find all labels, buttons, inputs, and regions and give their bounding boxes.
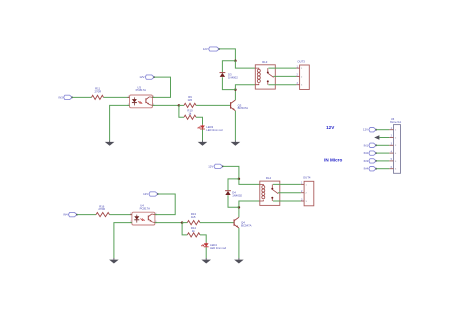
- wire U4 pin2 to ground: [114, 223, 132, 259]
- relay RL3: [255, 65, 275, 89]
- resistor R16: [96, 213, 110, 217]
- ground under Q4: [234, 258, 244, 263]
- wire RL3 common to OUT3 pin2: [274, 75, 297, 77]
- wire RL4 common to OUT4 pin2: [278, 192, 301, 194]
- connector U6 body: [394, 125, 401, 174]
- ground arrow terminal pin2: [374, 135, 379, 139]
- wire rail to D3 cathode: [222, 61, 235, 72]
- wire RL4 contact NO to OUT4 pin1: [273, 183, 301, 185]
- svg-text:IN3: IN3: [364, 159, 369, 163]
- junction node base divider A: [178, 104, 181, 107]
- U6 pin 2 stub: [389, 137, 393, 139]
- svg-text:1N4002: 1N4002: [228, 75, 238, 79]
- svg-text:1k5: 1k5: [188, 98, 193, 102]
- wire IN1 port to U6 pin 3: [376, 144, 389, 146]
- wire 12V to U4 pin4: [155, 194, 175, 215]
- wire RL4 contact NC to OUT4 pin3: [273, 200, 301, 202]
- wire 12V to U3 pin4: [153, 77, 171, 97]
- LED indicator LED4: [201, 243, 208, 248]
- junction node 12V rail B: [238, 178, 241, 181]
- svg-text:270R: 270R: [94, 89, 101, 93]
- U6 pin 6 stub: [389, 168, 393, 170]
- wire IN2 port to U6 pin 4: [376, 152, 389, 154]
- port 12V top: [209, 47, 221, 51]
- wire R14 to LED4: [200, 235, 206, 243]
- resistor R9: [184, 103, 196, 107]
- wire node down to R10: [179, 105, 184, 117]
- relay RL4: [260, 181, 280, 205]
- svg-text:12V: 12V: [208, 164, 213, 168]
- svg-text:RL3: RL3: [262, 60, 268, 64]
- svg-text:12V: 12V: [326, 125, 335, 130]
- ground under LED4: [201, 258, 211, 263]
- ground under Q3: [231, 140, 241, 145]
- svg-text:Borne 6x1: Borne 6x1: [390, 121, 402, 124]
- port 12V mid: [214, 164, 224, 168]
- svg-text:IN3: IN3: [58, 95, 63, 99]
- wire node to R9: [179, 104, 184, 106]
- transistor Q4: [234, 217, 239, 228]
- svg-text:PC817A: PC817A: [140, 206, 151, 210]
- resistor R13: [187, 221, 200, 225]
- wire RL3 contact NC to OUT3 pin3: [268, 84, 296, 86]
- svg-text:IN Micro: IN Micro: [324, 157, 342, 162]
- wire LED3 to ground: [202, 129, 204, 140]
- wire 12V top to rail: [219, 49, 235, 61]
- svg-text:BC547A: BC547A: [241, 223, 252, 227]
- U6 pin 5 stub: [389, 160, 393, 162]
- wire LED4 to ground: [205, 247, 207, 258]
- connector OUT4: [301, 181, 314, 206]
- port 12V above U4: [149, 192, 159, 196]
- svg-text:IN2: IN2: [364, 151, 369, 155]
- port 12V above U3: [145, 75, 155, 79]
- diode D3: [220, 73, 226, 77]
- ground under LED3: [198, 140, 208, 145]
- U6 pin 1 stub: [389, 129, 393, 131]
- wire node down to R14: [182, 223, 187, 235]
- resistor R11: [92, 95, 104, 99]
- wire R13 to Q4 base: [200, 222, 234, 224]
- port 12V at U6 pin 1: [369, 128, 377, 132]
- wire rail to D4 cathode: [228, 179, 239, 190]
- junction node collector B: [238, 206, 241, 209]
- wire R11 to U3 pin1: [104, 96, 130, 98]
- wire R16 to U4 pin1: [110, 214, 132, 216]
- svg-text:OUT4: OUT4: [303, 176, 311, 180]
- svg-text:OUT3: OUT3: [297, 60, 305, 64]
- wire 12V port to U6 pin 1: [376, 129, 389, 131]
- LED D indicator LED3: [198, 125, 205, 130]
- junction node collector A: [234, 88, 237, 91]
- wire Q3 emitter to ground: [234, 111, 236, 141]
- wire IN4 port to U6 pin 6: [376, 168, 389, 170]
- wire U3 pin3 to node: [153, 104, 179, 106]
- ground under U3: [105, 140, 115, 145]
- svg-text:1N4002: 1N4002: [232, 193, 242, 197]
- wire RL3 contact NO to OUT3 pin1: [268, 67, 296, 69]
- wire Q3 collector up: [234, 90, 236, 100]
- opto-coupler U3: [128, 95, 155, 108]
- wire U4 pin3 to node: [155, 222, 182, 224]
- resistor R14: [187, 233, 200, 237]
- wire Q4 emitter to ground: [238, 228, 240, 258]
- wire D3 anode to collector node: [222, 77, 235, 89]
- wire node to R13: [182, 222, 187, 224]
- svg-text:IN4: IN4: [364, 167, 369, 171]
- svg-text:270R: 270R: [98, 207, 105, 211]
- U6 pin 4 stub: [389, 152, 393, 154]
- resistor R10: [184, 115, 196, 119]
- wire U3 pin2 to ground: [110, 105, 130, 140]
- port IN3 at U6 pin 5: [369, 159, 377, 163]
- junction node base divider B: [181, 221, 184, 224]
- port IN1 at U6 pin 3: [369, 143, 377, 147]
- wire ground arrow to U6 pin2: [379, 137, 389, 139]
- ground under U4: [109, 258, 119, 263]
- wire R9 to Q3 base: [196, 104, 231, 106]
- svg-text:12V: 12V: [363, 128, 368, 132]
- wire Q4 collector up: [238, 207, 240, 217]
- svg-text:BC547A: BC547A: [238, 106, 249, 110]
- port IN4 at U6 pin 6: [369, 167, 377, 171]
- wire IN3 port to U6 pin 5: [376, 160, 389, 162]
- wire 12V mid to rail: [223, 166, 239, 179]
- svg-text:LED 3mm red: LED 3mm red: [206, 128, 223, 132]
- wire rail to RL4 coil top: [239, 179, 260, 185]
- svg-text:12V: 12V: [143, 192, 148, 196]
- svg-text:1k5: 1k5: [191, 215, 196, 219]
- svg-text:12V: 12V: [139, 75, 144, 79]
- wire collector node to RL4 coil bottom: [239, 201, 260, 207]
- port IN3 terminal: [64, 95, 74, 99]
- transistor Q3: [231, 100, 236, 111]
- svg-text:12V: 12V: [203, 47, 208, 51]
- wire rail to RL3 coil top: [235, 61, 255, 68]
- junction node 12V rail A: [234, 60, 237, 63]
- port IN4 terminal: [68, 212, 78, 216]
- svg-text:LED 3mm red: LED 3mm red: [210, 246, 227, 250]
- wire D4 anode to collector node: [228, 195, 239, 207]
- svg-text:IN1: IN1: [364, 143, 369, 147]
- wire R10 to LED3: [196, 117, 203, 125]
- opto-coupler U4: [130, 212, 157, 225]
- svg-text:PC817A: PC817A: [136, 88, 147, 92]
- port IN2 at U6 pin 4: [369, 151, 377, 155]
- U6 pin 3 stub: [389, 144, 393, 146]
- connector OUT3: [296, 65, 309, 90]
- svg-text:IN4: IN4: [63, 213, 68, 217]
- wire IN3 to R11: [72, 96, 91, 98]
- diode D4: [225, 191, 231, 195]
- wire collector node to RL3 coil bottom: [235, 85, 255, 90]
- wire IN4 to R16: [77, 214, 96, 216]
- svg-text:RL4: RL4: [266, 176, 272, 180]
